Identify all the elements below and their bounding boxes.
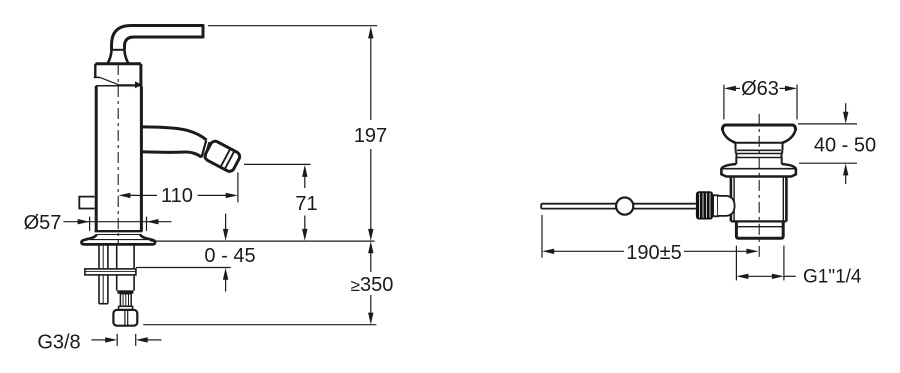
G3/8 nut <box>113 310 137 326</box>
aerator <box>203 140 241 174</box>
drain plug top cap <box>722 125 795 143</box>
side tab <box>79 197 94 209</box>
svg-text:40 - 50: 40 - 50 <box>814 135 876 157</box>
faucet lever handle <box>108 24 203 63</box>
drain seat flange <box>721 164 796 177</box>
svg-text:0 - 45: 0 - 45 <box>204 245 255 267</box>
dimension Ø57 <box>64 217 172 231</box>
body centerline <box>117 64 119 244</box>
drain centerline <box>758 114 760 257</box>
pop-up rod <box>541 204 696 209</box>
dimension 190±5 <box>542 215 758 258</box>
dimension G1"1/4 <box>736 246 795 281</box>
svg-text:190±5: 190±5 <box>626 242 681 264</box>
drain body <box>731 177 787 222</box>
clamp collar <box>713 195 718 216</box>
braided hose section <box>120 294 131 307</box>
dimension G3/8 <box>92 334 162 346</box>
dimension 0-45 <box>136 214 231 292</box>
dimension 197 <box>208 26 377 241</box>
rod ball joint <box>616 198 633 215</box>
dimension 110 <box>118 173 237 203</box>
drain tailpipe <box>736 221 783 238</box>
mounting stud <box>99 245 108 304</box>
dimension 40-50 <box>798 103 857 184</box>
svg-text:71: 71 <box>295 193 317 215</box>
hose flange <box>119 306 133 310</box>
rod clamp knurled knob <box>696 191 713 219</box>
dimension 71 <box>244 164 311 241</box>
faucet body <box>96 86 141 232</box>
faucet cap (cartridge cover) <box>94 64 141 87</box>
clamp cylinder <box>718 196 735 216</box>
hose crimp band <box>117 290 133 293</box>
spout joint rings <box>201 141 209 159</box>
deck reference line <box>151 240 375 242</box>
svg-text:Ø57: Ø57 <box>24 212 62 234</box>
svg-text:197: 197 <box>354 125 387 147</box>
dimension Ø63 <box>724 85 797 120</box>
horseshoe washer plate <box>85 269 136 275</box>
cap indicator arrow <box>100 78 142 89</box>
drain plug neck rings <box>734 143 785 164</box>
supply shank <box>117 245 134 291</box>
spout <box>142 127 207 157</box>
svg-text:G3/8: G3/8 <box>37 331 80 353</box>
svg-text:110: 110 <box>161 185 193 207</box>
base flare <box>82 231 155 244</box>
svg-text:≥350: ≥350 <box>351 274 394 296</box>
dimension >=350 <box>368 241 373 324</box>
svg-text:Ø63: Ø63 <box>741 78 779 100</box>
svg-text:G1"1/4: G1"1/4 <box>803 266 862 287</box>
floor reference line <box>143 324 376 326</box>
